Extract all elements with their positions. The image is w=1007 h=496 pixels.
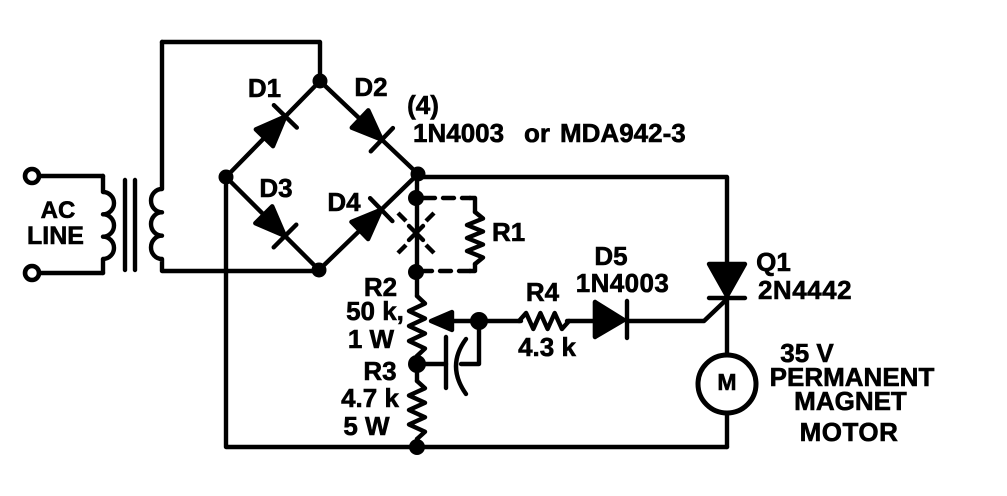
svg-text:R4: R4 [526, 277, 560, 307]
svg-text:MOTOR: MOTOR [800, 417, 899, 447]
svg-text:D5: D5 [594, 241, 627, 271]
svg-text:D4: D4 [327, 187, 361, 217]
svg-text:1N4003: 1N4003 [413, 118, 504, 148]
svg-text:50 k,: 50 k, [346, 296, 404, 326]
svg-text:M: M [717, 369, 736, 395]
svg-text:(4): (4) [407, 90, 439, 120]
svg-text:LINE: LINE [27, 222, 84, 250]
svg-text:Q1: Q1 [756, 247, 791, 277]
svg-text:1 W: 1 W [348, 324, 395, 354]
svg-text:1N4003: 1N4003 [576, 268, 669, 298]
svg-text:R3: R3 [363, 356, 396, 386]
svg-text:D2: D2 [354, 72, 387, 102]
svg-text:AC: AC [41, 197, 76, 224]
svg-text:4.3 k: 4.3 k [518, 332, 576, 362]
svg-text:D3: D3 [259, 173, 292, 203]
svg-text:MAGNET: MAGNET [794, 386, 907, 416]
svg-text:or: or [524, 118, 550, 148]
svg-text:D1: D1 [248, 73, 281, 103]
svg-text:2N4442: 2N4442 [758, 275, 852, 305]
svg-text:R1: R1 [492, 217, 525, 247]
svg-text:MDA942-3: MDA942-3 [560, 118, 686, 148]
svg-text:4.7 k: 4.7 k [341, 383, 399, 413]
svg-text:5 W: 5 W [343, 411, 390, 441]
